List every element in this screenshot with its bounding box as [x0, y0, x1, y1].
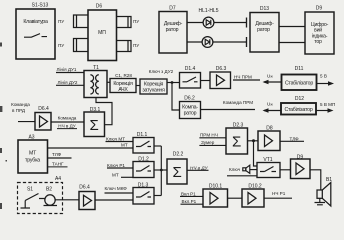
svg-text:НЧ в ДУ: НЧ в ДУ	[58, 124, 76, 129]
wire D1.2 output	[154, 169, 161, 171]
svg-text:Вкл Р1: Вкл Р1	[181, 191, 196, 196]
label ТЛФ	[52, 152, 62, 157]
node Команда в ПРД	[11, 102, 35, 122]
label Ключ з ДУ2	[149, 69, 174, 74]
svg-text:Лінія ДУ1: Лінія ДУ1	[57, 67, 77, 72]
microphone B2	[44, 187, 58, 206]
wire attenuation to D1.4	[167, 82, 180, 84]
svg-text:МТ: МТ	[29, 151, 37, 157]
svg-text:ПУ: ПУ	[58, 43, 64, 48]
amplifier D8	[258, 126, 280, 151]
svg-text:В2: В2	[46, 187, 52, 193]
output arrow 5 В МП	[316, 102, 335, 113]
svg-text:D6: D6	[96, 4, 103, 10]
connector tab ПУ (right bottom)	[117, 41, 140, 52]
svg-text:Стабілізатор: Стабілізатор	[285, 81, 313, 87]
svg-text:НЧ в ДУ: НЧ в ДУ	[190, 165, 209, 170]
svg-text:С1, R28: С1, R28	[115, 73, 132, 78]
svg-text:S1: S1	[27, 187, 33, 193]
svg-text:Ключ: Ключ	[229, 167, 241, 172]
switch D1.2	[133, 157, 154, 178]
svg-text:Команда: Команда	[58, 115, 77, 120]
svg-text:Команда: Команда	[11, 102, 30, 107]
keyboard S1-S13	[16, 3, 55, 60]
wire T1 to AChX	[107, 81, 110, 83]
svg-text:ТЛФ: ТЛФ	[290, 136, 300, 141]
svg-text:Стабілізатор: Стабілізатор	[284, 107, 312, 113]
svg-text:D9: D9	[316, 6, 323, 12]
output arrow 5 В	[317, 74, 335, 86]
svg-text:D12: D12	[295, 96, 304, 102]
handset A3 (МТ трубка)	[18, 135, 48, 174]
connector tab ПУ (right top)	[117, 17, 140, 28]
svg-text:D2.2: D2.2	[173, 152, 184, 158]
decoder D7	[159, 6, 187, 54]
dashed unit A4	[18, 176, 63, 214]
svg-text:в ПРД: в ПРД	[12, 108, 26, 113]
net label НЧ ПРМ	[233, 74, 260, 80]
wire node down to VT1	[254, 141, 258, 166]
net label Ключ Р1	[107, 163, 133, 168]
switch D1.4	[180, 66, 201, 88]
scan specks	[0, 43, 7, 210]
net label Ключ МТ	[106, 136, 134, 141]
ground	[315, 198, 326, 205]
wire D6.4 to D3.1 with labels Команда / НЧ в ДУ	[51, 115, 84, 128]
switch D1.1	[133, 132, 154, 153]
net label Вкл.Р1 (lower)	[181, 199, 204, 204]
wire D1.4 to D6.3	[201, 80, 211, 82]
svg-text:Зумер: Зумер	[201, 140, 215, 145]
svg-text:ПУ: ПУ	[58, 19, 64, 24]
wire D13-D9 lower	[279, 42, 305, 44]
svg-text:НЧ Р1: НЧ Р1	[272, 191, 286, 196]
voltage regulator D11	[282, 66, 317, 90]
svg-text:ратор: ратор	[166, 27, 179, 33]
svg-text:МП: МП	[98, 30, 106, 36]
svg-text:Ключ Р1: Ключ Р1	[107, 163, 125, 168]
power arrow Uж into D11	[263, 73, 282, 84]
node line Лінія ДУ2	[56, 80, 84, 85]
wire D7 to LED2	[187, 41, 247, 43]
wire D1.1 output	[154, 145, 161, 147]
wire AChX to attenuation	[136, 85, 140, 87]
LED HL1	[203, 17, 246, 28]
label МТ	[121, 142, 128, 147]
speaker B1	[317, 183, 331, 207]
summator D2.3	[226, 123, 248, 154]
microprocessor U D6 (МП)	[88, 4, 117, 61]
amplifier D9	[291, 155, 311, 179]
wire D8 output ТЛФ	[280, 136, 304, 141]
svg-text:HL1-HL5: HL1-HL5	[198, 8, 218, 14]
amplifier D10.2	[242, 183, 264, 207]
svg-text:НЧ ПРМ: НЧ ПРМ	[234, 74, 252, 79]
wire ТЛФ/МТ long	[48, 147, 134, 149]
wire D10.2 output НЧ Р1	[264, 191, 292, 198]
voltage regulator D12	[281, 96, 316, 115]
svg-text:Uж: Uж	[267, 101, 273, 106]
node line Лінія ДУ1	[56, 67, 84, 73]
summator D2.2	[167, 152, 187, 184]
net label ПРМ НЧ	[199, 132, 226, 137]
svg-text:Ключ з ДУ2: Ключ з ДУ2	[149, 69, 174, 74]
wire node to comparator	[172, 83, 180, 111]
svg-text:тор: тор	[314, 39, 322, 45]
svg-text:D6.4: D6.4	[38, 106, 49, 112]
label МТ (D1.2 input)	[112, 172, 133, 177]
summator D3.1	[84, 107, 105, 137]
decoder D13	[250, 6, 279, 52]
connector tab ПУ (left bottom)	[58, 39, 88, 52]
svg-text:трубка: трубка	[25, 158, 40, 164]
wire D10.1 to D10.2	[228, 197, 243, 199]
svg-text:Клавіатура: Клавіатура	[23, 19, 48, 25]
svg-text:D6.2: D6.2	[184, 96, 195, 102]
label HL1-HL5	[198, 8, 218, 14]
svg-text:D1.4: D1.4	[185, 66, 196, 72]
svg-text:Лінія ДУ2: Лінія ДУ2	[58, 80, 78, 85]
svg-text:D6.4: D6.4	[79, 185, 90, 191]
svg-text:ратор: ратор	[184, 110, 197, 116]
svg-text:МТ: МТ	[112, 172, 119, 177]
connector tab ПУ (left top)	[58, 15, 88, 28]
power arrow Uж into D12	[263, 101, 282, 112]
svg-text:Σ: Σ	[90, 117, 99, 134]
transformer T1	[84, 65, 107, 98]
svg-text:D11: D11	[295, 66, 304, 72]
svg-text:ПУ: ПУ	[133, 19, 139, 24]
label C1, R28	[115, 73, 132, 78]
svg-text:D13: D13	[260, 6, 269, 12]
node junction after D2.3	[252, 139, 255, 142]
input Ключ with horn symbol	[229, 165, 257, 173]
svg-text:Команда ПРМ: Команда ПРМ	[223, 100, 253, 105]
svg-text:Вкл.Р1: Вкл.Р1	[182, 199, 197, 204]
svg-text:ТЛФ: ТЛФ	[52, 152, 62, 157]
amplifier D6.3	[210, 66, 231, 89]
svg-text:S1-S13: S1-S13	[32, 3, 49, 9]
net label Ключ МКФ	[105, 186, 134, 193]
svg-text:Uж: Uж	[267, 73, 273, 78]
label ТАНГ	[48, 161, 68, 167]
svg-text:5 В: 5 В	[320, 74, 327, 79]
LED HL5	[202, 37, 246, 48]
wire D1.3 output	[154, 195, 161, 197]
wire D2.2 output НЧ в ДУ	[187, 165, 209, 170]
node junction on bus	[160, 169, 163, 172]
amplifier D10.1	[203, 183, 228, 207]
net label Зумер	[199, 140, 226, 145]
svg-text:ТАНГ: ТАНГ	[52, 161, 64, 166]
wire D9 to speaker	[310, 170, 321, 190]
switch S1	[21, 187, 46, 209]
svg-text:Ключ МКФ: Ключ МКФ	[105, 186, 128, 191]
wire D2.3 to D8	[248, 140, 259, 142]
switch D1.3	[133, 183, 154, 204]
wire B2 to D6.4b	[55, 199, 79, 201]
svg-text:Σ: Σ	[173, 164, 182, 181]
wire Команда ПРМ	[201, 100, 256, 110]
block attenuation correction	[140, 79, 167, 94]
node junction	[171, 81, 174, 84]
wire D3.1 output up to T1	[96, 98, 112, 125]
svg-text:ПУ: ПУ	[133, 43, 139, 48]
svg-text:D7: D7	[169, 6, 176, 12]
wire mic amp to D1.3	[95, 199, 133, 201]
digital indicator D9	[305, 6, 334, 55]
comparator D6.2	[180, 96, 201, 119]
svg-text:ПРМ НЧ: ПРМ НЧ	[200, 132, 218, 137]
bus wire to D2.2	[161, 146, 167, 196]
svg-text:А4: А4	[55, 176, 61, 182]
svg-text:Ключ МТ: Ключ МТ	[106, 136, 125, 141]
amplifier D6.4	[35, 106, 51, 130]
amplifier D6.4 (mic)	[79, 185, 95, 210]
svg-text:5 В МП: 5 В МП	[320, 102, 335, 107]
wire VT1 to D9	[280, 169, 291, 171]
svg-text:затухання: затухання	[142, 87, 165, 93]
svg-text:D6.3: D6.3	[216, 66, 227, 72]
wire D7 to LED1	[187, 22, 247, 24]
transistor switch VT1	[257, 157, 280, 178]
block corrector АЧХ	[110, 79, 136, 93]
wire ТАНГ	[48, 157, 72, 159]
wire D13-D9 upper	[279, 26, 305, 28]
svg-text:АЧХ: АЧХ	[118, 87, 128, 93]
wire stub into VT1 bottom	[227, 175, 257, 177]
svg-text:МТ: МТ	[121, 142, 128, 147]
label В1	[326, 177, 332, 183]
svg-text:ратор: ратор	[257, 27, 270, 33]
net label Вкл Р1 (upper)	[180, 191, 203, 196]
svg-text:Σ: Σ	[232, 134, 241, 151]
